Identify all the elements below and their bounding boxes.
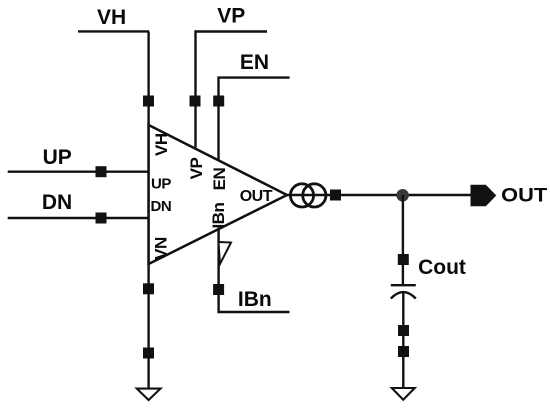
op-amp U1 charge pump triangle	[149, 125, 287, 264]
pin square UP	[96, 166, 107, 177]
svg-text:IBn: IBn	[209, 203, 228, 229]
wire left rail	[147, 31, 149, 388]
ground right	[392, 388, 415, 400]
OUT terminal pentagon	[471, 185, 497, 206]
pin square Cout	[398, 254, 409, 265]
svg-text:EN: EN	[210, 167, 229, 190]
svg-text:VH: VH	[97, 6, 126, 29]
pin square EN	[213, 96, 224, 107]
svg-text:VP: VP	[217, 4, 245, 27]
pin square right 2	[398, 346, 409, 357]
svg-text:VN: VN	[152, 237, 171, 260]
wire node to capacitor	[402, 195, 404, 285]
svg-text:UP: UP	[151, 175, 171, 192]
wire VP	[196, 32, 268, 148]
svg-text:OUT: OUT	[240, 188, 273, 205]
label Cout	[418, 256, 466, 279]
label UP	[43, 146, 72, 169]
wire EN	[219, 78, 290, 161]
label EN	[240, 51, 269, 74]
svg-text:DN: DN	[151, 198, 172, 215]
wire UP	[8, 170, 149, 172]
svg-text:Cout: Cout	[418, 256, 466, 279]
pin label VH	[152, 133, 171, 156]
current source symbol circles	[290, 184, 326, 207]
pin square output	[330, 190, 341, 201]
label VP	[217, 4, 245, 27]
svg-text:EN: EN	[240, 51, 269, 74]
svg-text:DN: DN	[42, 191, 72, 214]
pin square rail 1	[143, 283, 154, 294]
pin square right 1	[398, 325, 409, 336]
svg-text:UP: UP	[43, 146, 72, 169]
ground left	[137, 389, 161, 400]
IBn flag arrow	[219, 242, 232, 264]
svg-text:OUT: OUT	[501, 185, 547, 206]
capacitor Cout	[391, 285, 416, 298]
pin label DN	[151, 198, 172, 215]
pin label VP	[187, 158, 206, 180]
label VH	[97, 6, 126, 29]
pin square rail 2	[143, 348, 154, 359]
label DN	[42, 191, 72, 214]
pin label UP	[151, 175, 171, 192]
pin square VH	[143, 96, 154, 107]
wire output	[287, 194, 471, 196]
pin label EN	[210, 167, 229, 190]
svg-text:IBn: IBn	[238, 288, 272, 311]
pin square DN	[96, 213, 107, 224]
label OUT	[501, 185, 547, 206]
svg-text:VH: VH	[152, 133, 171, 156]
svg-text:VP: VP	[187, 158, 206, 180]
node junction	[396, 189, 409, 202]
pin label IBn	[209, 203, 228, 229]
label IBn	[238, 288, 272, 311]
pin label OUT	[240, 188, 273, 205]
pin square VP	[190, 96, 201, 107]
pin square IBn	[213, 284, 224, 295]
wire VH	[78, 30, 149, 32]
wire DN	[8, 217, 149, 219]
IBn wire	[219, 228, 290, 312]
wire capacitor to ground	[402, 293, 404, 388]
pin label VN	[152, 237, 171, 260]
